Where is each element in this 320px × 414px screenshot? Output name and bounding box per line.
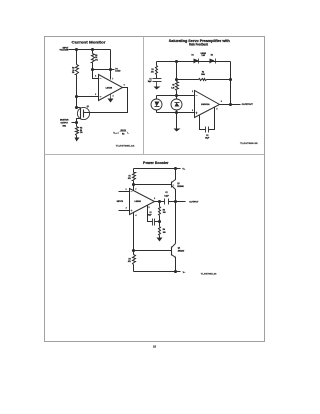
node Q1 collector junction <box>174 167 177 170</box>
svg-text:5: 5 <box>149 207 150 209</box>
wire output node to Q2 collector <box>175 202 177 244</box>
svg-text:LOAD: LOAD <box>115 69 121 72</box>
svg-text:8: 8 <box>217 108 218 110</box>
wire top rail <box>77 49 111 51</box>
svg-text:3: 3 <box>126 208 127 210</box>
Q1 gate bar <box>83 110 85 118</box>
column divider line <box>143 37 145 155</box>
svg-text:D2: D2 <box>211 54 213 56</box>
ground arrow below R3 <box>75 138 80 142</box>
op-amp U1 minus sign <box>100 78 102 80</box>
svg-text:Q2: Q2 <box>178 248 180 250</box>
svg-text:100k: 100k <box>201 74 205 76</box>
wire op-amp output to FET gate <box>84 88 128 113</box>
photodiode PD1 circle <box>151 99 162 110</box>
resistor R3 50 1% <box>76 123 79 139</box>
resistor R1 47k <box>133 169 136 185</box>
wire C2 to output node <box>169 201 176 203</box>
PD1 bottom lead <box>156 110 158 113</box>
node R2 top junction <box>132 249 135 252</box>
wire op-amp V+ pin stub <box>133 185 135 191</box>
svg-text:LM108: LM108 <box>135 201 142 203</box>
page border frame <box>45 37 265 342</box>
op-amp U1 LM108 triangle <box>99 75 123 101</box>
svg-text:4: 4 <box>113 95 114 98</box>
capacitor C1 10uF <box>153 78 162 80</box>
svg-text:47k: 47k <box>128 177 131 180</box>
wire right feedback vertical <box>230 62 232 105</box>
svg-text:2: 2 <box>95 76 96 78</box>
svg-text:C1: C1 <box>149 212 151 214</box>
node R3/R4/C1 junction <box>158 220 161 223</box>
wire inverting input <box>93 70 99 79</box>
svg-text:100µF: 100µF <box>147 215 152 217</box>
svg-text:R2: R2 <box>122 134 124 136</box>
Q1 source lead <box>77 119 81 123</box>
resistor R2 2k 1% <box>76 50 79 108</box>
svg-text:IL: IL <box>127 132 129 134</box>
node R1 top junction <box>91 48 94 51</box>
svg-text:2: 2 <box>192 91 193 93</box>
Q2 emitter lead with arrow <box>172 255 176 272</box>
ground arrow below R4 <box>157 238 163 242</box>
svg-text:Q1: Q1 <box>87 106 89 108</box>
svg-text:OUTPUT: OUTPUT <box>189 201 199 203</box>
wire input top <box>119 191 130 193</box>
svg-text:4: 4 <box>136 214 137 217</box>
node R1 bottom / base junction <box>132 183 135 186</box>
svg-text:TL/H/7885-35: TL/H/7885-35 <box>240 143 258 145</box>
PD2 bottom lead <box>176 110 178 113</box>
svg-text:1.8k: 1.8k <box>171 87 174 89</box>
wire input stub <box>69 49 77 51</box>
wire to output label <box>176 201 186 203</box>
svg-text:47k: 47k <box>128 260 131 263</box>
svg-text:0.1µF: 0.1µF <box>164 195 168 197</box>
svg-text:50Ω: 50Ω <box>62 125 66 127</box>
diode D1 <box>194 59 199 64</box>
wire non-inverting input <box>157 112 195 114</box>
wire input bottom <box>119 210 130 212</box>
svg-text:LM108: LM108 <box>106 87 113 89</box>
Q2 collector lead <box>172 244 176 248</box>
Q1 collector lead <box>172 169 176 183</box>
wire V+ pin 7 of op-amp <box>110 50 112 80</box>
resistor R4 300 <box>159 222 161 239</box>
resistor R3 1.8k <box>176 82 179 96</box>
ground arrow branch <box>176 113 178 129</box>
node inverting input junction <box>175 94 178 97</box>
svg-text:R4: R4 <box>163 228 165 231</box>
svg-text:300: 300 <box>163 232 166 234</box>
capacitor C2 0.1uF <box>164 199 166 205</box>
wire top feedback rail <box>157 61 231 63</box>
svg-text:TL/H/7885-34: TL/H/7885-34 <box>116 145 136 148</box>
svg-text:3: 3 <box>95 94 96 96</box>
svg-text:R3: R3 <box>163 209 165 211</box>
svg-text:30pF: 30pF <box>205 138 209 140</box>
svg-text:1%: 1% <box>80 132 83 134</box>
Q1 channel bar <box>80 108 82 119</box>
wire mid vertical branch <box>176 62 178 82</box>
svg-text:MONITOR: MONITOR <box>60 120 69 122</box>
op-amp U3 plus sign <box>131 210 133 212</box>
transistor Q1 FET circle <box>77 107 89 119</box>
transistor Q2 2N2219 base bar <box>171 247 173 256</box>
svg-text:1: 1 <box>196 113 197 115</box>
svg-text:D1: D1 <box>192 54 194 56</box>
op-amp U3 LM108 triangle <box>130 189 155 215</box>
op-amp U2 plus sign <box>196 112 198 114</box>
svg-text:10µF: 10µF <box>148 81 152 83</box>
node ground branch junction <box>175 111 178 114</box>
node R2 wire junction right <box>229 78 232 81</box>
PD2 top lead <box>176 96 178 99</box>
resistor R3 300 <box>159 202 161 222</box>
node output junction <box>174 200 177 203</box>
photodiode PD2 circle <box>171 99 182 110</box>
resistor R1 2k 1% <box>92 50 95 70</box>
wire op-amp V- pin 4 drop <box>133 213 135 251</box>
svg-text:2N2219: 2N2219 <box>178 251 184 253</box>
node feedback junction <box>158 200 161 203</box>
V- supply arrow of op-amp U1 <box>110 95 112 99</box>
node top-mid junction <box>175 60 178 63</box>
wire output <box>220 104 241 106</box>
svg-text:INPUTS: INPUTS <box>117 201 124 203</box>
wire non-inverting input <box>77 96 99 98</box>
node to-load junction <box>109 68 112 71</box>
svg-text:R2: R2 <box>202 71 204 73</box>
svg-text:6: 6 <box>221 101 222 103</box>
node output junction <box>229 103 232 106</box>
diode D2 <box>210 59 215 64</box>
wire inverting input <box>157 95 195 97</box>
svg-text:6: 6 <box>154 198 155 200</box>
op-amp U1 plus sign <box>100 96 102 98</box>
ground arrow below C1 <box>156 82 158 87</box>
Q1 drain lead <box>77 107 81 109</box>
resistor R2 100k feedback <box>177 79 199 81</box>
transistor Q1 2N2905 base bar <box>171 182 173 188</box>
compensation capacitor C2 30pF <box>200 116 206 130</box>
Q1 emitter lead with arrow <box>172 186 176 202</box>
op-amp U2 minus sign <box>196 95 198 97</box>
svg-text:1%: 1% <box>95 59 98 61</box>
svg-text:2N2905: 2N2905 <box>177 186 183 188</box>
svg-text:VOLTAGE: VOLTAGE <box>59 49 69 52</box>
svg-text:Rate Feedback: Rate Feedback <box>189 43 208 47</box>
svg-text:7: 7 <box>112 79 113 81</box>
wire monitor output stub <box>72 122 77 124</box>
svg-text:R3: R3 <box>172 85 174 87</box>
svg-text:TL/H/7885-36: TL/H/7885-36 <box>201 274 217 276</box>
svg-text:Current Monitor: Current Monitor <box>72 41 107 45</box>
node Q1 drain junction <box>75 106 78 109</box>
wire Q1 base <box>134 184 172 186</box>
svg-text:Q1: Q1 <box>177 183 179 185</box>
node R1 bottom junction <box>91 68 94 71</box>
node monitor output junction <box>75 121 78 124</box>
svg-text:Power Booster: Power Booster <box>143 161 169 165</box>
capacitor C1 100uF <box>148 206 153 222</box>
node R2 wire junction left <box>175 78 178 81</box>
resistor R2 47k <box>133 251 136 272</box>
node non-inverting junction <box>75 95 78 98</box>
resistor R1 27k <box>156 62 158 79</box>
wire Q2 base <box>134 250 172 252</box>
svg-text:300: 300 <box>163 212 166 214</box>
svg-text:V+: V+ <box>182 169 185 171</box>
wire V+ top rail <box>134 168 181 170</box>
op-amp U2 LM101A triangle <box>195 91 220 118</box>
wire output from apex <box>155 201 165 203</box>
svg-text:V−: V− <box>183 272 186 274</box>
row divider line <box>45 154 265 156</box>
svg-text:LM101A: LM101A <box>201 103 210 106</box>
svg-text:7: 7 <box>136 189 137 191</box>
svg-text:1%: 1% <box>72 72 75 74</box>
svg-text:OUTPUT: OUTPUT <box>242 104 254 106</box>
op-amp U3 minus sign <box>131 191 133 193</box>
node input junction <box>75 48 78 51</box>
svg-text:VOUT =: VOUT = <box>113 132 119 134</box>
svg-text:3: 3 <box>192 110 193 112</box>
svg-text:2: 2 <box>126 189 127 191</box>
svg-text:C2: C2 <box>165 192 167 194</box>
svg-text:6: 6 <box>124 84 125 86</box>
PD1 top lead <box>156 96 158 99</box>
node Q2 emitter junction <box>174 270 177 273</box>
svg-text:16: 16 <box>153 345 157 349</box>
svg-text:27k: 27k <box>151 71 154 73</box>
wire V- bottom rail <box>134 271 181 273</box>
wire to load <box>93 69 115 71</box>
svg-text:OUTPUT: OUTPUT <box>61 122 69 124</box>
